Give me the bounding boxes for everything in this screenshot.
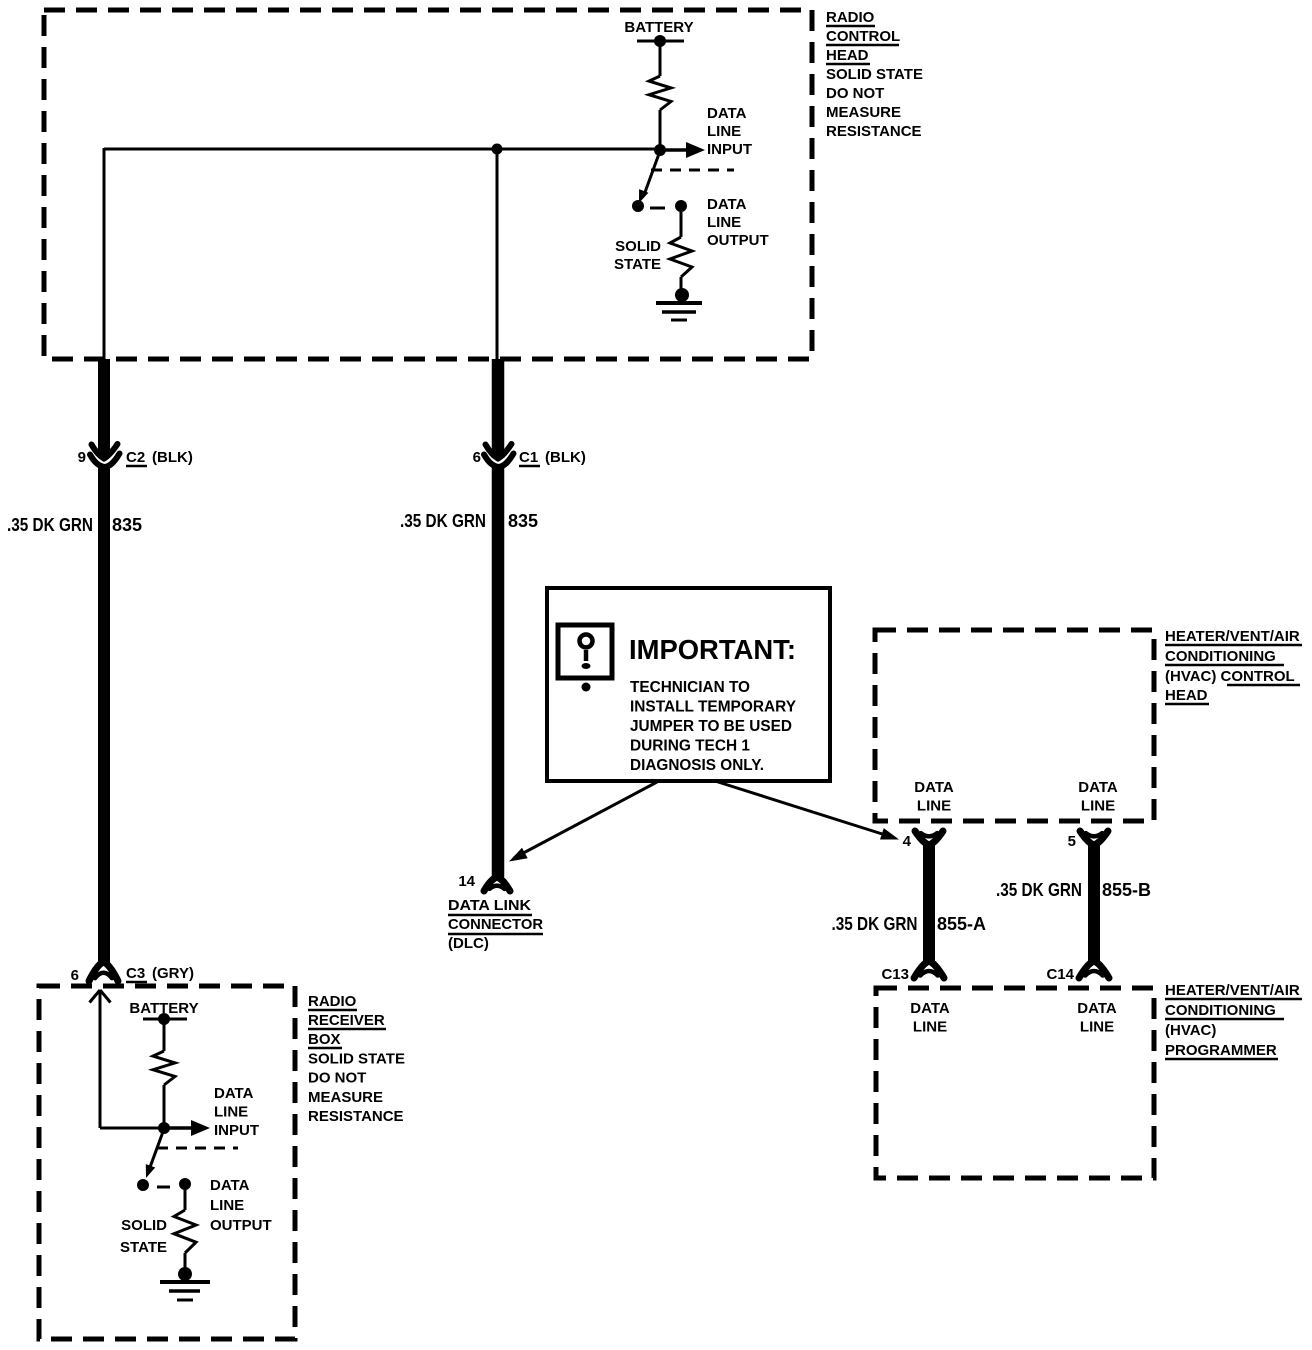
svg-text:SOLID STATE: SOLID STATE xyxy=(826,66,923,83)
svg-text:CONNECTOR: CONNECTOR xyxy=(448,916,543,933)
svg-text:HEATER/VENT/AIR: HEATER/VENT/AIR xyxy=(1165,628,1300,645)
svg-text:CONTROL: CONTROL xyxy=(826,28,900,45)
svg-text:RESISTANCE: RESISTANCE xyxy=(826,123,922,140)
svg-text:DATA LINK: DATA LINK xyxy=(448,897,531,914)
svg-text:BOX: BOX xyxy=(308,1031,341,1048)
svg-text:DATA: DATA xyxy=(707,105,747,122)
svg-text:MEASURE: MEASURE xyxy=(308,1089,383,1106)
svg-text:LINE: LINE xyxy=(913,1019,947,1036)
svg-text:5: 5 xyxy=(1068,833,1076,850)
svg-text:(HVAC) CONTROL: (HVAC) CONTROL xyxy=(1165,668,1295,685)
svg-text:DATA: DATA xyxy=(910,1000,950,1017)
svg-text:4: 4 xyxy=(903,833,912,850)
svg-text:C2: C2 xyxy=(126,449,145,466)
svg-text:DO NOT: DO NOT xyxy=(308,1070,366,1087)
svg-text:PROGRAMMER: PROGRAMMER xyxy=(1165,1042,1277,1059)
svg-text:.35 DK GRN: .35 DK GRN xyxy=(7,515,93,535)
svg-text:RADIO: RADIO xyxy=(308,993,357,1010)
svg-text:STATE: STATE xyxy=(614,256,661,273)
svg-text:C1: C1 xyxy=(519,449,538,466)
svg-text:6: 6 xyxy=(71,967,79,984)
svg-text:DATA: DATA xyxy=(214,1085,254,1102)
svg-text:(BLK): (BLK) xyxy=(545,449,586,466)
svg-text:OUTPUT: OUTPUT xyxy=(210,1217,272,1234)
svg-text:LINE: LINE xyxy=(707,123,741,140)
svg-text:C14: C14 xyxy=(1046,966,1074,983)
svg-text:(BLK): (BLK) xyxy=(152,449,193,466)
svg-text:DATA: DATA xyxy=(210,1177,250,1194)
svg-text:.35 DK GRN: .35 DK GRN xyxy=(400,511,486,531)
svg-text:CONDITIONING: CONDITIONING xyxy=(1165,648,1276,665)
svg-text:JUMPER TO BE USED: JUMPER TO BE USED xyxy=(630,718,792,735)
svg-text:BATTERY: BATTERY xyxy=(624,19,693,36)
svg-text:DATA: DATA xyxy=(707,196,747,213)
svg-text:DATA: DATA xyxy=(914,779,954,796)
svg-text:LINE: LINE xyxy=(707,214,741,231)
svg-text:C3: C3 xyxy=(126,965,145,982)
svg-text:RADIO: RADIO xyxy=(826,9,875,26)
svg-text:14: 14 xyxy=(458,873,475,890)
svg-text:6: 6 xyxy=(473,449,481,466)
svg-text:835: 835 xyxy=(508,511,538,531)
svg-text:9: 9 xyxy=(78,449,86,466)
svg-text:TECHNICIAN TO: TECHNICIAN TO xyxy=(630,679,750,696)
svg-text:INPUT: INPUT xyxy=(214,1122,259,1139)
svg-text:LINE: LINE xyxy=(210,1197,244,1214)
svg-text:MEASURE: MEASURE xyxy=(826,104,901,121)
svg-text:(HVAC): (HVAC) xyxy=(1165,1022,1216,1039)
svg-text:DURING TECH 1: DURING TECH 1 xyxy=(630,738,750,755)
svg-text:855-B: 855-B xyxy=(1102,880,1151,900)
svg-text:CONDITIONING: CONDITIONING xyxy=(1165,1002,1276,1019)
svg-text:(GRY): (GRY) xyxy=(152,965,194,982)
svg-text:855-A: 855-A xyxy=(937,914,986,934)
svg-text:DATA: DATA xyxy=(1078,779,1118,796)
svg-text:SOLID: SOLID xyxy=(615,238,661,255)
svg-text:INPUT: INPUT xyxy=(707,141,752,158)
svg-text:.35 DK GRN: .35 DK GRN xyxy=(832,914,918,934)
svg-text:LINE: LINE xyxy=(917,798,951,815)
svg-text:LINE: LINE xyxy=(214,1104,248,1121)
svg-text:INSTALL TEMPORARY: INSTALL TEMPORARY xyxy=(630,699,796,716)
svg-text:835: 835 xyxy=(112,515,142,535)
svg-text:DO NOT: DO NOT xyxy=(826,85,884,102)
svg-text:SOLID STATE: SOLID STATE xyxy=(308,1051,405,1068)
svg-text:HEATER/VENT/AIR: HEATER/VENT/AIR xyxy=(1165,982,1300,999)
svg-text:HEAD: HEAD xyxy=(826,47,869,64)
svg-text:HEAD: HEAD xyxy=(1165,687,1208,704)
svg-text:DIAGNOSIS ONLY.: DIAGNOSIS ONLY. xyxy=(630,757,764,774)
svg-text:STATE: STATE xyxy=(120,1239,167,1256)
svg-text:C13: C13 xyxy=(881,966,909,983)
svg-text:LINE: LINE xyxy=(1081,798,1115,815)
svg-text:RESISTANCE: RESISTANCE xyxy=(308,1108,404,1125)
svg-text:SOLID: SOLID xyxy=(121,1217,167,1234)
svg-text:OUTPUT: OUTPUT xyxy=(707,232,769,249)
svg-text:IMPORTANT:: IMPORTANT: xyxy=(629,634,796,665)
svg-text:DATA: DATA xyxy=(1077,1000,1117,1017)
svg-text:RECEIVER: RECEIVER xyxy=(308,1012,385,1029)
svg-text:(DLC): (DLC) xyxy=(448,935,489,952)
svg-text:LINE: LINE xyxy=(1080,1019,1114,1036)
svg-text:.35 DK GRN: .35 DK GRN xyxy=(996,880,1082,900)
